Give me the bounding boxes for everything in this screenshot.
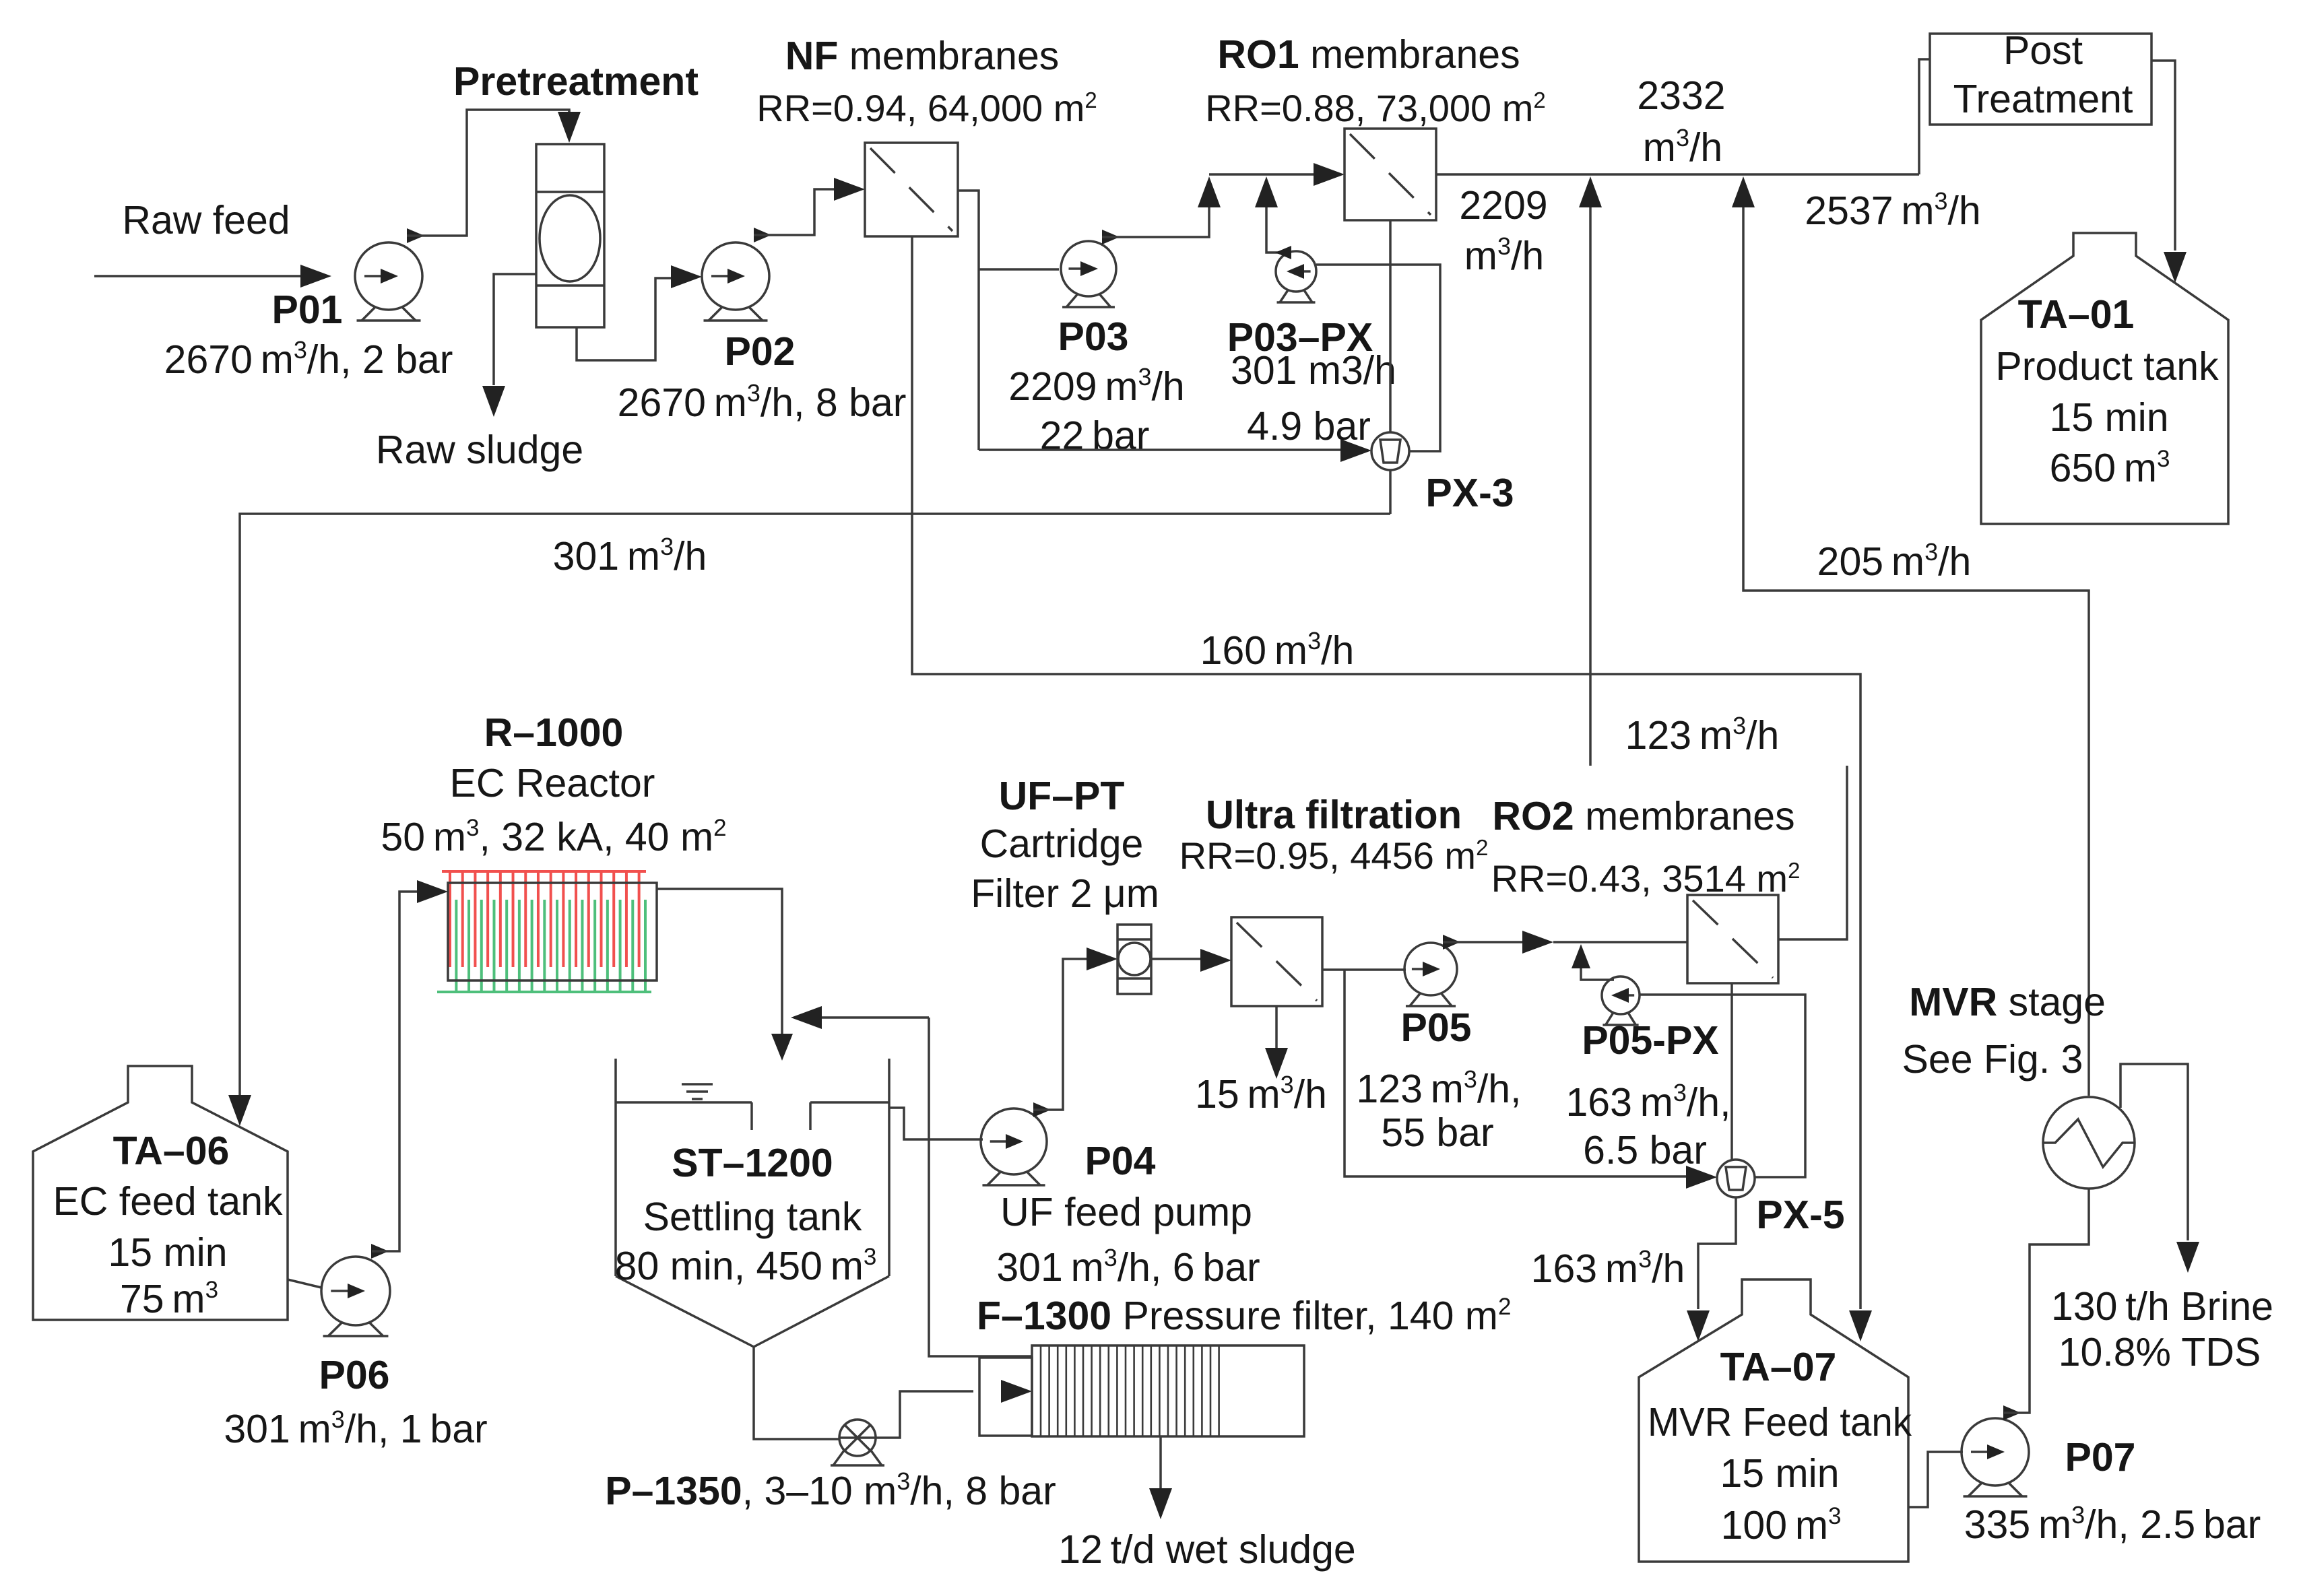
svg-text:15 min: 15 min bbox=[1720, 1451, 1839, 1496]
wire product to Post Treatment bbox=[1919, 59, 1930, 174]
svg-text:80 min, 450 m3: 80 min, 450 m3 bbox=[615, 1244, 877, 1288]
pump P06 bbox=[321, 1257, 390, 1336]
svg-text:MVR Feed tank: MVR Feed tank bbox=[1648, 1400, 1912, 1444]
reactor R-1000 vessel bbox=[448, 883, 657, 980]
text NF RR spec bbox=[756, 87, 1097, 129]
svg-text:Product tank: Product tank bbox=[1995, 344, 2219, 389]
text TA-01 650 m3 bbox=[2050, 446, 2170, 490]
svg-text:301 m3/h: 301 m3/h bbox=[553, 533, 707, 578]
text P01 label bbox=[272, 288, 343, 332]
svg-text:RR=0.88, 73,000 m2: RR=0.88, 73,000 m2 bbox=[1205, 87, 1546, 129]
svg-text:301 m3/h, 1 bar: 301 m3/h, 1 bar bbox=[224, 1405, 487, 1451]
text flow 205 m3/h bbox=[1817, 538, 1972, 584]
svg-text:4.9 bar: 4.9 bar bbox=[1247, 404, 1371, 448]
text product 2537 m3/h bbox=[1805, 187, 1980, 233]
wire 301 m3/h recycle line to TA-06 bbox=[228, 514, 1390, 1126]
svg-text:Pretreatment: Pretreatment bbox=[453, 59, 699, 104]
membrane unit NF bbox=[865, 143, 958, 236]
text P03-PX head 4.9 bar bbox=[1247, 404, 1371, 448]
text P02 label bbox=[725, 329, 796, 374]
text UF-PT label bbox=[999, 774, 1125, 818]
text ST-1200 spec 80 min 450 m3 bbox=[615, 1244, 877, 1288]
svg-text:EC feed tank: EC feed tank bbox=[53, 1179, 283, 1224]
wire NF permeate down branch bbox=[958, 191, 979, 450]
text P06 label bbox=[319, 1353, 390, 1397]
svg-text:50 m3, 32 kA, 40 m2: 50 m3, 32 kA, 40 m2 bbox=[381, 815, 726, 859]
svg-text:15 min: 15 min bbox=[2049, 395, 2168, 440]
text TA-07 MVR Feed tank bbox=[1648, 1400, 1912, 1444]
svg-text:100 m3: 100 m3 bbox=[1721, 1503, 1842, 1548]
wire PX-3 to P03-PX loop bbox=[1316, 265, 1440, 451]
text P06 flow 301 m3/h 1 bar bbox=[224, 1405, 487, 1451]
svg-text:2537 m3/h: 2537 m3/h bbox=[1805, 187, 1980, 233]
text EC Reactor label bbox=[450, 761, 655, 805]
wire NF concentrate 160 m3/h line bbox=[912, 236, 1872, 1341]
wire UF return downcomer to F-1300 bbox=[929, 1018, 1032, 1356]
wire P03-PX discharge riser bbox=[1255, 176, 1291, 259]
svg-text:Post: Post bbox=[2003, 28, 2083, 73]
text TA-06 75 m3 bbox=[120, 1277, 218, 1321]
wire P06 to R-1000 bbox=[371, 880, 448, 1259]
pump P07 bbox=[1962, 1418, 2029, 1496]
text product m3/h bbox=[1643, 124, 1722, 170]
text P03 head 22 bar bbox=[1040, 413, 1150, 458]
text P04 label bbox=[1085, 1139, 1156, 1183]
wire P02 to NF membranes bbox=[754, 178, 865, 242]
wire ST-1200 underflow to P-1350 bbox=[754, 1347, 839, 1439]
svg-text:P06: P06 bbox=[319, 1353, 390, 1397]
svg-text:Filter 2 μm: Filter 2 μm bbox=[971, 871, 1159, 916]
text brine 130 t/h bbox=[2051, 1284, 2273, 1329]
pump P01 bbox=[355, 242, 422, 321]
text UF purge 15 m3/h bbox=[1195, 1071, 1327, 1117]
membrane unit UF ultrafiltration bbox=[1231, 917, 1322, 1006]
svg-text:12 t/d wet sludge: 12 t/d wet sludge bbox=[1058, 1527, 1356, 1572]
svg-text:P02: P02 bbox=[725, 329, 796, 374]
pump P03-PX booster bbox=[1276, 251, 1316, 302]
text PX-3 label bbox=[1425, 471, 1514, 515]
svg-text:Treatment: Treatment bbox=[1953, 77, 2133, 121]
svg-text:163 m3/h: 163 m3/h bbox=[1531, 1245, 1685, 1291]
text TA-01 Product tank bbox=[1995, 344, 2219, 389]
pump P-1350 sludge pump bbox=[831, 1420, 884, 1465]
text flow 123 m3/h upper bbox=[1625, 712, 1780, 758]
wire P05-PX inlet from PX-5 bbox=[1640, 995, 1805, 1177]
svg-text:2670 m3/h, 2 bar: 2670 m3/h, 2 bar bbox=[164, 336, 453, 382]
svg-text:22 bar: 22 bar bbox=[1040, 413, 1150, 458]
text P05 head 55 bar bbox=[1381, 1110, 1493, 1155]
svg-text:130 t/h Brine: 130 t/h Brine bbox=[2051, 1284, 2273, 1329]
wire ST-1200 overflow to P04 bbox=[889, 1108, 983, 1139]
text P05-PX flow 163 m3/h bbox=[1565, 1079, 1730, 1125]
svg-text:55 bar: 55 bar bbox=[1381, 1110, 1493, 1155]
svg-text:PX-5: PX-5 bbox=[1756, 1193, 1844, 1237]
membrane unit RO1 bbox=[1345, 129, 1436, 220]
text recycle flow 301 m3/h bbox=[553, 533, 707, 578]
svg-text:6.5 bar: 6.5 bar bbox=[1583, 1128, 1707, 1172]
text RO1 RR spec bbox=[1205, 87, 1546, 129]
text wet sludge label bbox=[1058, 1527, 1356, 1572]
exchanger MVR evaporator bbox=[2043, 1097, 2135, 1189]
text P07 label bbox=[2065, 1435, 2136, 1479]
svg-text:75 m3: 75 m3 bbox=[120, 1277, 218, 1321]
text Post label bbox=[2003, 28, 2083, 73]
svg-text:15 m3/h: 15 m3/h bbox=[1195, 1071, 1327, 1117]
svg-text:Ultra filtration: Ultra filtration bbox=[1206, 793, 1462, 837]
text TA-06 15 min bbox=[108, 1230, 227, 1275]
text TA-07 100 m3 bbox=[1721, 1503, 1842, 1548]
filter F-1300 pressure filter bbox=[979, 1345, 1304, 1436]
pump P04 UF feed pump bbox=[981, 1108, 1047, 1185]
svg-text:TA–01: TA–01 bbox=[2018, 292, 2135, 337]
svg-text:163 m3/h,: 163 m3/h, bbox=[1565, 1079, 1730, 1125]
text P-1350 spec bbox=[605, 1467, 1056, 1513]
svg-text:F–1300 Pressure filter, 140 m2: F–1300 Pressure filter, 140 m2 bbox=[977, 1294, 1511, 1338]
text TA-01 label bbox=[2018, 292, 2135, 337]
pump P02 bbox=[702, 242, 769, 321]
svg-text:PX-3: PX-3 bbox=[1425, 471, 1514, 515]
svg-text:P–1350, 3–10 m3/h, 8 bar: P–1350, 3–10 m3/h, 8 bar bbox=[605, 1467, 1056, 1513]
wire PX-5 to TA-07 bbox=[1687, 1197, 1736, 1341]
text P07 flow 335 m3/h 2.5 bar bbox=[1964, 1501, 2261, 1547]
svg-text:R–1000: R–1000 bbox=[484, 710, 624, 755]
text PX-5 outlet 163 m3/h bbox=[1531, 1245, 1685, 1291]
text ST-1200 Settling tank bbox=[643, 1195, 862, 1239]
text R-1000 label bbox=[484, 710, 624, 755]
wire P04 to cartridge filter bbox=[1033, 947, 1118, 1117]
vessel Pretreatment clarifier bbox=[536, 144, 604, 327]
tank TA-06 EC feed tank bbox=[33, 1066, 288, 1320]
svg-text:RR=0.43, 3514 m2: RR=0.43, 3514 m2 bbox=[1491, 857, 1801, 900]
svg-text:301 m3/h: 301 m3/h bbox=[1231, 348, 1396, 393]
wire product header line bbox=[1436, 173, 1919, 176]
wire P05 to RO2 feed bbox=[1443, 931, 1687, 954]
text TA-06 EC feed tank bbox=[53, 1179, 283, 1224]
text P05 label bbox=[1401, 1005, 1472, 1050]
text TA-01 15 min bbox=[2049, 395, 2168, 440]
text UF RR spec bbox=[1179, 834, 1489, 877]
text product 2332 bbox=[1637, 73, 1725, 118]
svg-text:P01: P01 bbox=[272, 288, 343, 332]
svg-text:P04: P04 bbox=[1085, 1139, 1156, 1183]
svg-text:205 m3/h: 205 m3/h bbox=[1817, 538, 1972, 584]
text TA-07 15 min bbox=[1720, 1451, 1839, 1496]
wire Post Treatment to TA-01 bbox=[2151, 61, 2187, 283]
svg-text:P03: P03 bbox=[1058, 314, 1129, 359]
wire RO2 concentrate to PX-5 bbox=[1730, 983, 1733, 1160]
text P05-PX head 6.5 bar bbox=[1583, 1128, 1707, 1172]
text Filter 2 um label bbox=[971, 871, 1159, 916]
wire P-1350 to F-1300 bbox=[876, 1380, 1032, 1438]
svg-text:P05: P05 bbox=[1401, 1005, 1472, 1050]
text P01 flow 2670 m3/h 2 bar bbox=[164, 336, 453, 382]
svg-text:EC Reactor: EC Reactor bbox=[450, 761, 655, 805]
svg-text:10.8% TDS: 10.8% TDS bbox=[2059, 1330, 2261, 1374]
text RO1 membranes label bbox=[1217, 32, 1520, 77]
text brine TDS bbox=[2059, 1330, 2261, 1374]
wire P01 to Pretreatment bbox=[407, 110, 581, 243]
svg-text:RO1 membranes: RO1 membranes bbox=[1217, 32, 1520, 77]
text RO1 permeate 2209 bbox=[1459, 183, 1547, 228]
wire NF permeate feed to PX-3 bbox=[979, 439, 1371, 462]
svg-text:Settling tank: Settling tank bbox=[643, 1195, 862, 1239]
wire RO1 feed line bbox=[1209, 163, 1345, 186]
svg-text:UF–PT: UF–PT bbox=[999, 774, 1125, 818]
svg-text:160 m3/h: 160 m3/h bbox=[1200, 627, 1355, 673]
wire F-1300 sludge outlet bbox=[1149, 1436, 1172, 1519]
text TA-07 label bbox=[1720, 1345, 1837, 1389]
svg-text:NF membranes: NF membranes bbox=[785, 34, 1060, 78]
text P03-PX flow 301 m3/h bbox=[1231, 348, 1396, 393]
text EC Reactor spec bbox=[381, 815, 726, 859]
svg-text:P05-PX: P05-PX bbox=[1582, 1018, 1718, 1063]
text RO1 permeate m3/h bbox=[1464, 232, 1544, 278]
text NF membranes label bbox=[785, 34, 1060, 78]
wire TA-06 to P06 bbox=[288, 1279, 321, 1288]
reactor R-1000 electrodes bbox=[437, 871, 651, 992]
svg-text:See Fig. 3: See Fig. 3 bbox=[1902, 1037, 2083, 1082]
text P03 flow 2209 m3/h bbox=[1008, 363, 1184, 409]
svg-text:2209 m3/h: 2209 m3/h bbox=[1008, 363, 1184, 409]
wire UF permeate to P05 bbox=[1322, 968, 1406, 971]
text ST-1200 label bbox=[672, 1141, 833, 1185]
wire NF permeate to P03 bbox=[979, 268, 1059, 271]
svg-text:15 min: 15 min bbox=[108, 1230, 227, 1275]
membrane unit RO2 bbox=[1687, 895, 1778, 983]
wire MVR distillate riser to product bbox=[1732, 176, 2089, 1096]
text MVR stage label bbox=[1909, 980, 2106, 1024]
wire RO1 concentrate to PX-3 bbox=[1389, 220, 1392, 432]
wire Pretreatment sludge drain bbox=[482, 274, 536, 417]
svg-text:MVR stage: MVR stage bbox=[1909, 980, 2106, 1024]
text P04 UF feed pump bbox=[1000, 1190, 1252, 1234]
text F-1300 label bbox=[977, 1294, 1511, 1338]
svg-text:RO2 membranes: RO2 membranes bbox=[1492, 794, 1794, 838]
wire P05-PX discharge riser bbox=[1572, 944, 1614, 980]
wire MVR brine outlet bbox=[2120, 1064, 2199, 1273]
wire R-1000 to settling tank bbox=[657, 889, 793, 1061]
svg-text:2209: 2209 bbox=[1459, 183, 1547, 228]
text See Fig 3 label bbox=[1902, 1037, 2083, 1082]
text P03-PX label bbox=[1227, 315, 1373, 360]
svg-text:RR=0.95, 4456 m2: RR=0.95, 4456 m2 bbox=[1179, 834, 1489, 877]
svg-text:2332: 2332 bbox=[1637, 73, 1725, 118]
text P04 flow 301 m3/h 6 bar bbox=[996, 1244, 1260, 1290]
text Raw sludge label bbox=[376, 428, 583, 472]
text TA-06 label bbox=[113, 1129, 230, 1173]
wire UF permeate branch to PX-5 bbox=[1345, 970, 1717, 1189]
svg-text:Raw feed: Raw feed bbox=[122, 198, 290, 242]
wire P07 to MVR bbox=[2003, 1189, 2089, 1420]
wire Pretreatment to P02 bbox=[577, 265, 702, 360]
wire P03 to RO1 feed riser bbox=[1102, 176, 1221, 244]
svg-text:301 m3/h, 6 bar: 301 m3/h, 6 bar bbox=[996, 1244, 1260, 1290]
text RO2 RR spec bbox=[1491, 857, 1801, 900]
svg-text:Cartridge: Cartridge bbox=[980, 822, 1144, 866]
wire PX-3 bottom to recycle line bbox=[1389, 470, 1392, 514]
wire UF purge 15 m3/h bbox=[1265, 1006, 1288, 1079]
pump P05-PX booster bbox=[1602, 976, 1640, 1025]
text Treatment label bbox=[1953, 77, 2133, 121]
tank TA-01 product tank bbox=[1981, 233, 2228, 524]
wire UF concentrate return bbox=[791, 1006, 929, 1029]
text flow 160 m3/h bbox=[1200, 627, 1355, 673]
text Raw feed label bbox=[122, 198, 290, 242]
wire TA-07 to P07 bbox=[1908, 1452, 1963, 1507]
svg-text:2670 m3/h, 8 bar: 2670 m3/h, 8 bar bbox=[618, 379, 907, 425]
box Post Treatment bbox=[1930, 34, 2151, 125]
svg-text:ST–1200: ST–1200 bbox=[672, 1141, 833, 1185]
svg-text:Raw sludge: Raw sludge bbox=[376, 428, 583, 472]
text Cartridge label bbox=[980, 822, 1144, 866]
text Pretreatment label bbox=[453, 59, 699, 104]
pump P03 bbox=[1061, 241, 1116, 307]
text P05 flow 123 m3/h bbox=[1356, 1065, 1521, 1111]
svg-text:650 m3: 650 m3 bbox=[2050, 446, 2170, 490]
text PX-5 label bbox=[1756, 1193, 1844, 1237]
tank ST-1200 settling tank bbox=[616, 1059, 889, 1347]
filter UF-PT cartridge bbox=[1118, 925, 1151, 994]
svg-text:P07: P07 bbox=[2065, 1435, 2136, 1479]
svg-text:TA–06: TA–06 bbox=[113, 1129, 230, 1173]
water level symbol ST-1200 bbox=[682, 1084, 713, 1099]
svg-text:TA–07: TA–07 bbox=[1720, 1345, 1837, 1389]
text P03 label bbox=[1058, 314, 1129, 359]
wire RO2 permeate riser to product bbox=[1579, 176, 1602, 766]
svg-text:123 m3/h: 123 m3/h bbox=[1625, 712, 1780, 758]
svg-text:RR=0.94, 64,000 m2: RR=0.94, 64,000 m2 bbox=[756, 87, 1097, 129]
text RO2 membranes label bbox=[1492, 794, 1794, 838]
svg-text:123 m3/h,: 123 m3/h, bbox=[1356, 1065, 1521, 1111]
device PX-3 pressure exchanger bbox=[1371, 432, 1409, 470]
wire RO2 permeate exit bbox=[1778, 766, 1847, 939]
device PX-5 pressure exchanger bbox=[1717, 1160, 1755, 1197]
svg-text:UF feed pump: UF feed pump bbox=[1000, 1190, 1252, 1234]
text Ultra filtration label bbox=[1206, 793, 1462, 837]
text P05-PX label bbox=[1582, 1018, 1718, 1063]
tank TA-07 MVR feed tank bbox=[1639, 1279, 1908, 1562]
pump P05 bbox=[1404, 943, 1457, 1006]
wire cartridge to UF bbox=[1151, 949, 1231, 972]
svg-text:335 m3/h, 2.5 bar: 335 m3/h, 2.5 bar bbox=[1964, 1501, 2261, 1547]
text P02 flow 2670 m3/h 8 bar bbox=[618, 379, 907, 425]
wire raw feed line bbox=[94, 265, 331, 288]
